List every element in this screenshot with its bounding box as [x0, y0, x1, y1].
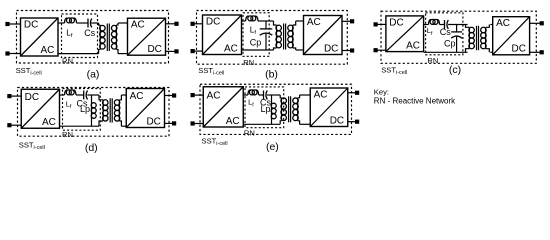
wire (d) transformer to AC/DC bottom [121, 125, 126, 127]
cell (b) output terminal 1 [342, 19, 354, 23]
capacitor Cp (c) shunt [451, 25, 462, 53]
svg-text:DC: DC [146, 116, 160, 127]
cell (d) output terminal 1 [165, 93, 177, 97]
label SSTi-cell (e) [202, 137, 228, 148]
svg-text:AC: AC [496, 18, 510, 29]
svg-text:Lp: Lp [80, 104, 90, 114]
inductor Lf (e) [248, 90, 259, 95]
label RN (b) [243, 58, 254, 67]
label SSTi-cell (a) [16, 66, 42, 77]
converter U2d AC/DC [126, 89, 164, 128]
svg-text:AC: AC [406, 40, 420, 51]
cell (c) input terminal 2 [374, 48, 386, 52]
wire (a) transformer to AC/DC bottom [118, 53, 128, 55]
label Lp (e) [260, 104, 270, 114]
wire bottom rail (b) [242, 49, 274, 51]
transformer T (c) [466, 25, 490, 53]
svg-text:AC: AC [40, 45, 54, 56]
cell (e) output terminal 2 [348, 120, 359, 124]
key title [374, 88, 389, 97]
svg-text:AC: AC [224, 43, 238, 54]
key entry RN - Reactive Network [374, 97, 456, 106]
reactive network RN box (d) [63, 89, 101, 131]
label SSTi-cell (c) [381, 66, 407, 77]
label Cs (d) [77, 99, 88, 109]
svg-text:RN - Reactive Network: RN - Reactive Network [374, 97, 456, 106]
svg-text:(c): (c) [449, 64, 461, 76]
wire (c) transformer to AC/DC bottom [490, 51, 492, 53]
label RN (c) [427, 56, 438, 65]
svg-text:RN: RN [427, 56, 438, 65]
wire (b) transformer to AC/DC bottom [296, 49, 304, 51]
converter U2b AC/DC [304, 16, 343, 55]
label Cs (c) [440, 27, 451, 37]
SST cell (a) outer dashed box [17, 11, 169, 64]
inductor Lf (c) [429, 19, 440, 24]
label Cs (e) [260, 98, 271, 108]
SST cell (b) outer dashed box [197, 11, 348, 65]
cell (b) output terminal 2 [342, 48, 354, 52]
wire (a) transformer to AC/DC top [118, 22, 128, 24]
svg-text:Cp: Cp [444, 38, 456, 48]
wire (c) transformer to AC/DC top [490, 24, 492, 26]
svg-text:AC: AC [42, 117, 56, 128]
svg-text:AC: AC [314, 89, 328, 100]
converter U2e AC/DC [310, 88, 348, 127]
label Cs (a) [84, 28, 95, 38]
converter U1b DC/AC [203, 15, 242, 55]
SST cell (e) outer dashed box [200, 84, 352, 134]
svg-text:(d): (d) [85, 142, 98, 154]
wire top rail (a) block to Lf [58, 22, 65, 24]
label Lf (c) [427, 26, 433, 37]
wire bottom rail (c) [424, 51, 468, 53]
cell (c) input terminal 1 [374, 22, 386, 26]
cell (c) output terminal 1 [530, 21, 544, 25]
svg-text:RN: RN [244, 129, 255, 138]
transformer T (a) [99, 23, 118, 54]
label SSTi-cell (d) [19, 140, 45, 151]
svg-text:AC: AC [131, 20, 145, 31]
converter U1a DC/AC [21, 18, 59, 56]
wire (b) Lf to Cp junction [258, 20, 274, 22]
inductor Lf (b) [246, 16, 258, 21]
inductor Lp (d) shunt [91, 95, 96, 126]
reactive network RN box (a) [62, 14, 98, 58]
wire (e) Cs to Lp junction [267, 94, 280, 96]
svg-text:DC: DC [25, 92, 39, 103]
cell (d) input terminal 2 [7, 123, 21, 127]
svg-text:Key:: Key: [374, 88, 389, 97]
svg-text:DC: DC [389, 17, 403, 28]
svg-text:Cs: Cs [440, 27, 451, 37]
transformer T (e) [280, 95, 299, 124]
wire bottom rail (d) [60, 125, 100, 127]
wire (d) Lf to Cs [76, 94, 84, 96]
SST cell (d) outer dashed box [18, 88, 170, 137]
wire (c) Lf to Cs [440, 24, 445, 26]
capacitor Cp (b) shunt [260, 21, 273, 50]
svg-text:AC: AC [130, 91, 144, 102]
cell (a) input terminal 1 [5, 22, 20, 26]
reactive network RN box (e) [245, 87, 284, 128]
wire top rail (c) block to Lf [424, 24, 429, 26]
label (e) [266, 141, 279, 153]
converter U2c AC/DC [493, 17, 530, 55]
label Lp (d) [80, 104, 90, 114]
label RN (a) [62, 57, 73, 66]
capacitor Cs (a) [88, 19, 92, 28]
wire (e) Lf to Cs [259, 94, 264, 96]
label (b) [265, 68, 278, 80]
converter U1d DC/AC [21, 89, 59, 128]
svg-text:RN: RN [243, 58, 254, 67]
cell (c) output terminal 2 [530, 50, 544, 54]
label Cp (c) [444, 38, 456, 48]
label (d) [85, 142, 98, 154]
cell (b) input terminal 1 [191, 22, 203, 26]
svg-text:Cp: Cp [250, 37, 262, 47]
wire (d) transformer to AC/DC top [121, 94, 126, 96]
converter U1c DC/AC [386, 16, 424, 52]
inductor Lf (a) [65, 18, 77, 23]
converter U2a AC/DC [128, 18, 166, 55]
cell (e) input terminal 1 [191, 93, 204, 97]
label Lf (b) [250, 24, 257, 36]
wire (e) transformer to AC/DC bottom [300, 123, 311, 125]
svg-text:RN: RN [62, 130, 73, 139]
svg-text:(b): (b) [265, 68, 278, 80]
wire (d) Cs to Lp junction [87, 94, 99, 96]
wire (b) transformer to AC/DC top [296, 20, 304, 22]
transformer T (b) [274, 21, 296, 50]
cell (d) output terminal 2 [165, 121, 177, 125]
svg-text:Lp: Lp [260, 104, 270, 114]
cell (b) input terminal 2 [191, 49, 203, 53]
capacitor Cs (e) [264, 91, 268, 100]
label Cp (b) [250, 37, 262, 47]
svg-text:(a): (a) [87, 68, 100, 80]
wire top rail (d) block to Lf [60, 94, 65, 96]
svg-text:DC: DC [24, 19, 38, 30]
svg-text:DC: DC [324, 43, 338, 54]
svg-text:AC: AC [226, 116, 240, 127]
capacitor Cs (d) [84, 91, 88, 100]
reactive network RN box (c) [426, 13, 463, 55]
label Lf (e) [248, 98, 254, 109]
label Lf (a) [66, 28, 73, 40]
svg-text:DC: DC [330, 115, 344, 126]
svg-text:RN: RN [62, 57, 73, 66]
wire top rail (e) block to Lf [243, 94, 248, 96]
wire (e) transformer to AC/DC top [300, 94, 311, 96]
cell (d) input terminal 1 [7, 94, 21, 98]
transformer T (d) [99, 95, 121, 126]
cell (e) input terminal 2 [191, 121, 204, 125]
cell (a) input terminal 2 [5, 51, 20, 55]
label Lf (d) [66, 100, 72, 111]
reactive network RN box (b) [243, 13, 269, 57]
cell (e) output terminal 1 [348, 91, 359, 95]
cell (a) output terminal 2 [166, 49, 179, 53]
label SSTi-cell (b) [198, 66, 224, 77]
label (a) [87, 68, 100, 80]
wire (a) Lf to Cs [77, 22, 89, 24]
wire (a) Cs to transformer [91, 22, 98, 24]
svg-text:AC: AC [307, 17, 321, 28]
svg-text:AC: AC [207, 91, 221, 102]
label RN (d) [62, 130, 73, 139]
svg-text:Cs: Cs [84, 28, 95, 38]
converter U1e AC/AC [203, 87, 243, 127]
inductor Lp (e) shunt [271, 95, 276, 124]
wire top rail (b) block to Lf [242, 20, 246, 22]
SST cell (c) outer dashed box [381, 11, 536, 63]
inductor Lf (d) [65, 90, 77, 95]
label RN (e) [244, 129, 255, 138]
label (c) [449, 64, 461, 76]
svg-text:DC: DC [206, 16, 220, 27]
svg-text:DC: DC [512, 44, 526, 55]
svg-text:(e): (e) [266, 141, 279, 153]
wire bottom rail (e) [243, 123, 280, 125]
svg-text:DC: DC [147, 44, 161, 55]
capacitor Cs (c) [445, 20, 449, 29]
wire (c) Cs to Cp junction [448, 24, 467, 26]
wire bottom rail (a) [58, 53, 99, 55]
cell (a) output terminal 1 [166, 22, 179, 26]
